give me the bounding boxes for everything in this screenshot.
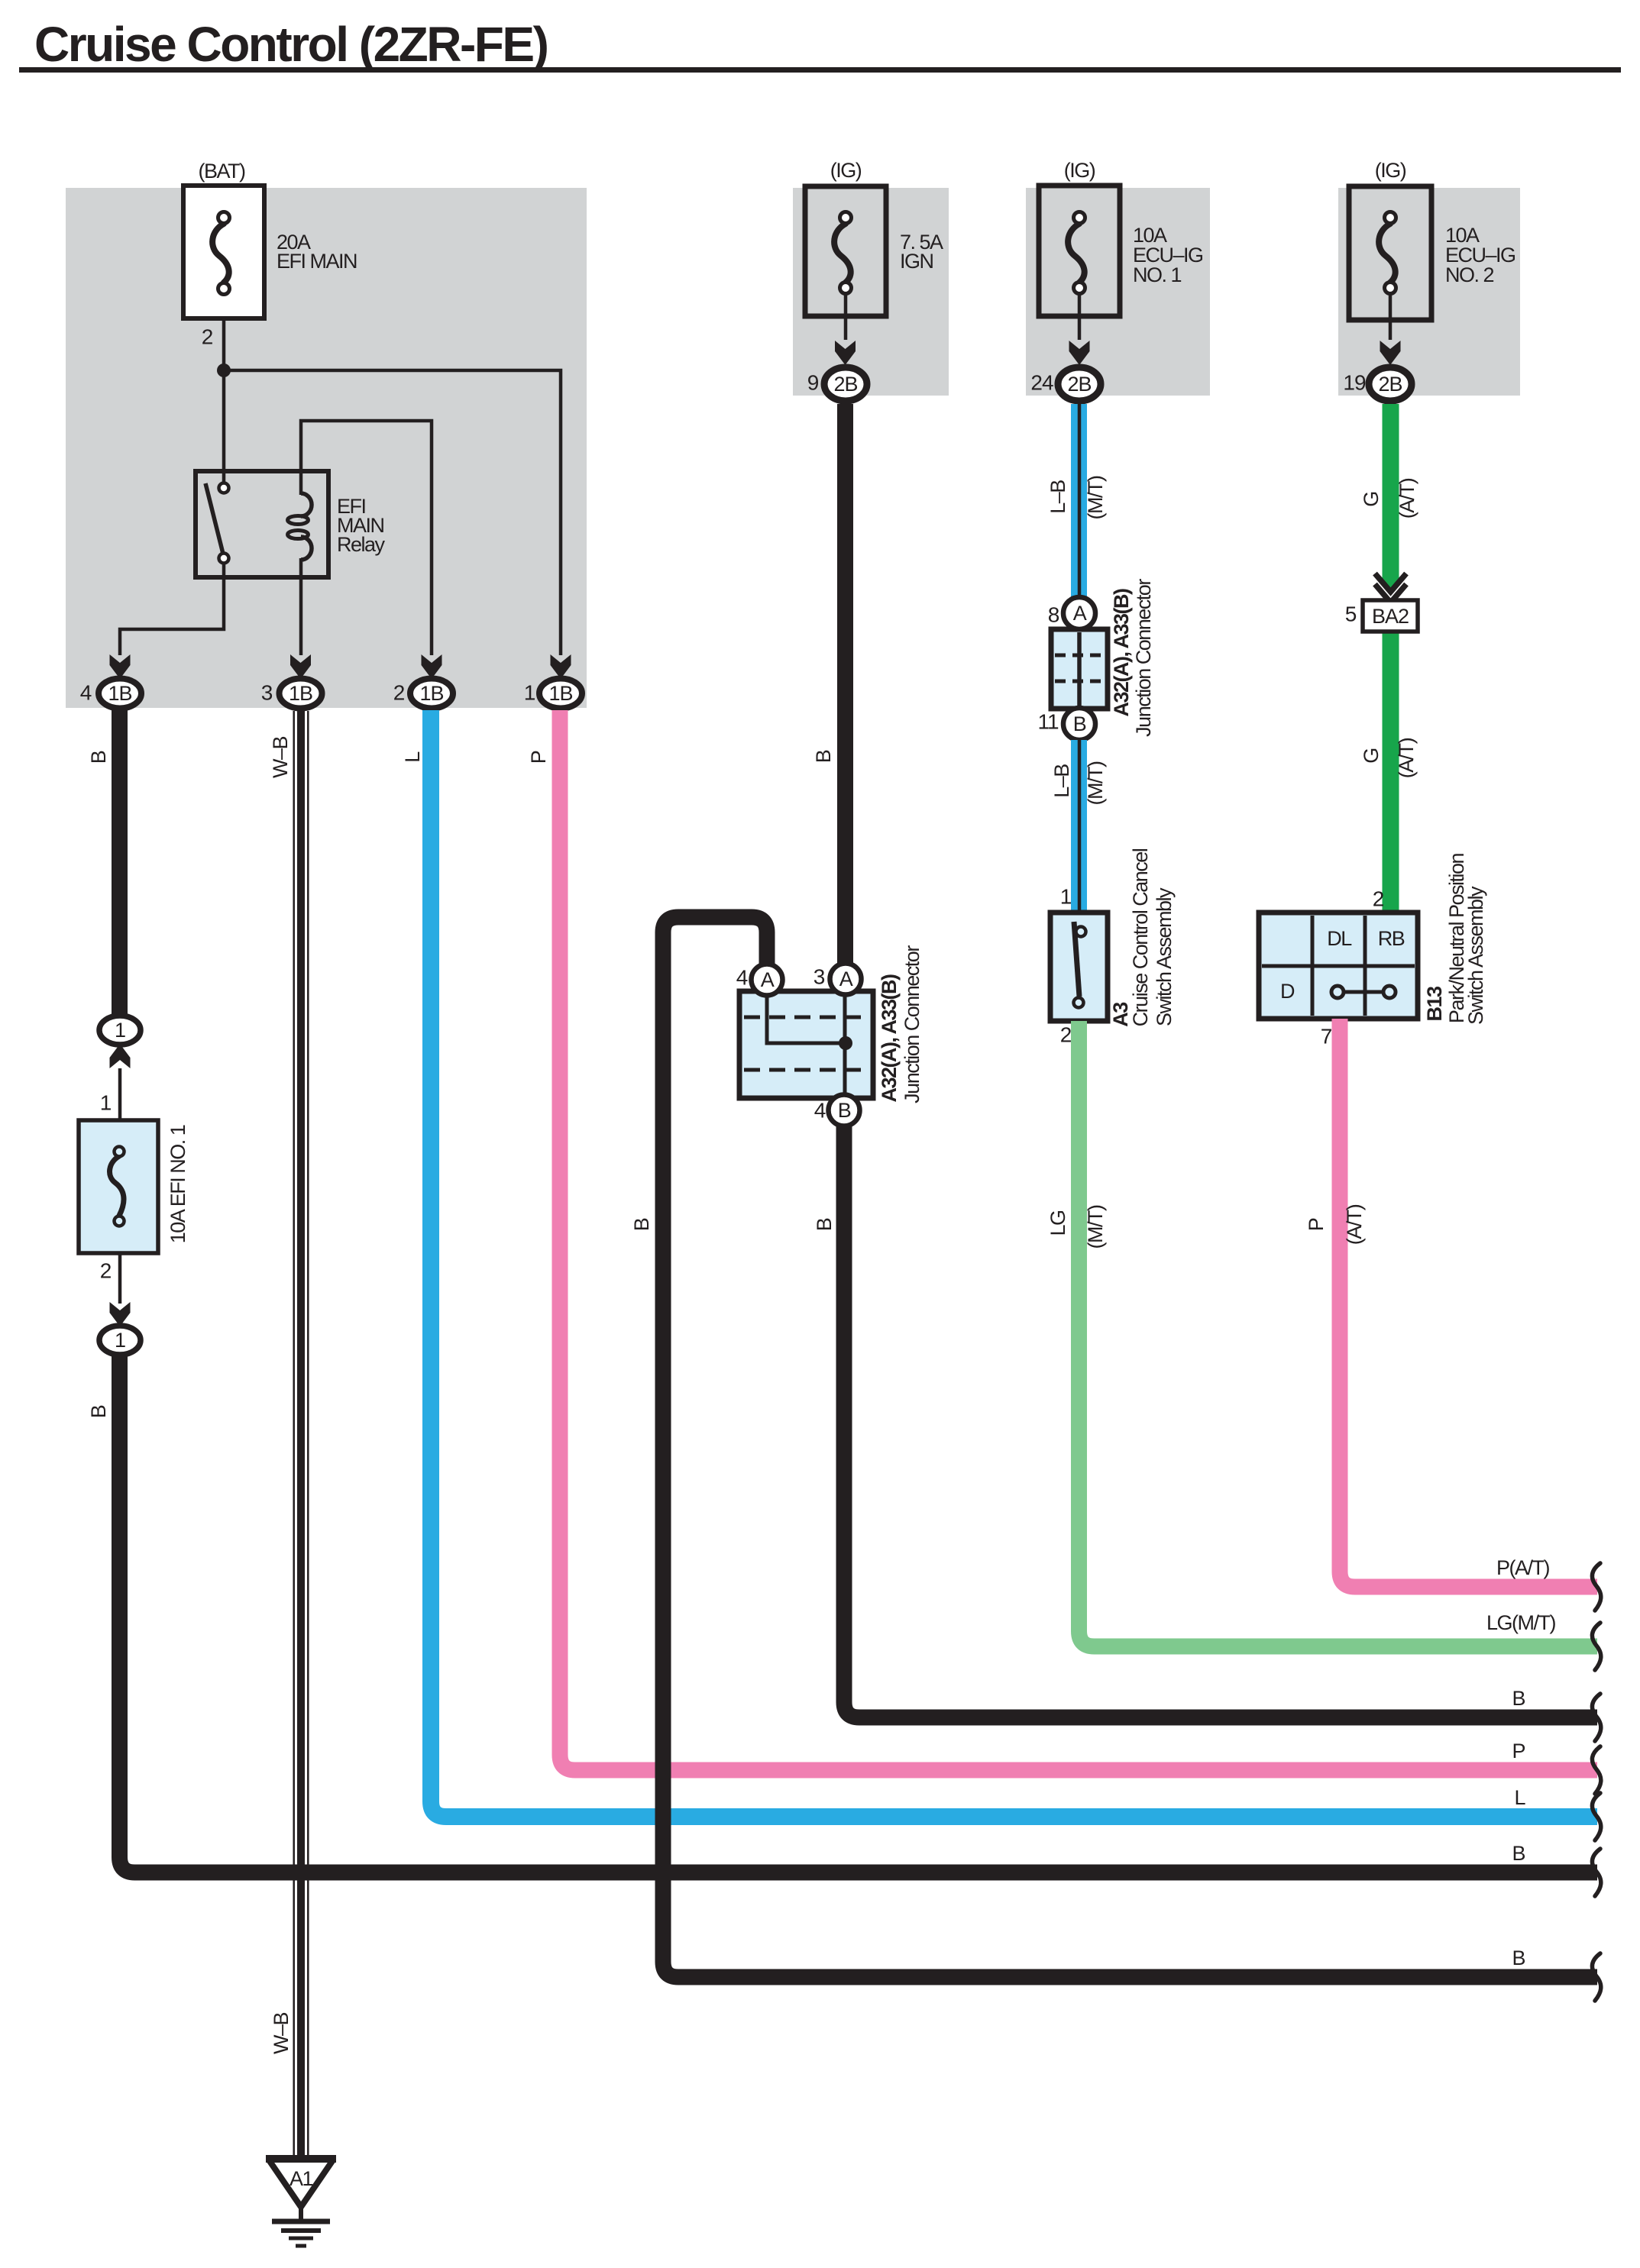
svg-text:1: 1 xyxy=(524,681,535,705)
svg-text:(M/T): (M/T) xyxy=(1084,761,1107,805)
svg-text:G: G xyxy=(1360,492,1383,507)
junction small pin B circle xyxy=(1063,708,1095,740)
svg-text:1: 1 xyxy=(115,1019,125,1042)
svg-text:NO. 1: NO. 1 xyxy=(1133,263,1182,286)
svg-text:(BAT): (BAT) xyxy=(199,160,245,183)
svg-text:A: A xyxy=(1073,602,1087,625)
connector 1 lower xyxy=(99,1326,141,1355)
svg-text:(IG): (IG) xyxy=(830,159,862,182)
svg-text:1B: 1B xyxy=(548,682,572,705)
svg-text:D: D xyxy=(1280,980,1295,1003)
pin 19 (2B) connector xyxy=(1369,367,1412,401)
wire arrow to fuse F5 xyxy=(118,1068,122,1120)
svg-text:L–B: L–B xyxy=(1050,764,1073,798)
svg-text:LG(M/T): LG(M/T) xyxy=(1486,1611,1555,1634)
svg-text:P: P xyxy=(1305,1218,1328,1231)
svg-text:NO. 2: NO. 2 xyxy=(1445,263,1494,286)
fuse F3 10A ECU-IG NO.1 xyxy=(1039,186,1120,316)
svg-text:4: 4 xyxy=(814,1099,826,1123)
svg-text:2B: 2B xyxy=(1378,373,1402,396)
pin 9 (2B) connector xyxy=(824,367,867,401)
svg-text:8: 8 xyxy=(1048,603,1059,627)
wire B elbow from junction A4 to bottom right edge xyxy=(663,917,1597,1977)
pin 19 (2B) arrow xyxy=(1380,341,1401,365)
svg-text:1: 1 xyxy=(1060,885,1072,909)
junction pin B (4) circle xyxy=(829,1095,860,1126)
svg-text:B: B xyxy=(812,750,835,763)
pin 2 (1B) connector xyxy=(410,679,453,709)
svg-text:BA2: BA2 xyxy=(1372,605,1409,628)
junction connector A32(A),A33(B) center box xyxy=(739,991,873,1098)
svg-text:(A/T): (A/T) xyxy=(1343,1204,1366,1245)
svg-text:DL: DL xyxy=(1327,927,1352,950)
wire F1 bottom to node xyxy=(222,318,226,370)
junction connector small box xyxy=(1051,629,1108,709)
svg-text:G: G xyxy=(1360,748,1383,764)
wire P from B13 to right edge xyxy=(1340,1019,1597,1587)
svg-text:1: 1 xyxy=(115,1329,125,1352)
squiggle end LG(M/T) xyxy=(1592,1623,1600,1670)
pin 3 (1B) arrow xyxy=(290,654,311,679)
pin 1 (1B) connector xyxy=(539,679,582,709)
wire F3 to pin 24 arrow xyxy=(1078,294,1082,340)
svg-text:Cruise Control Cancel: Cruise Control Cancel xyxy=(1129,848,1152,1026)
svg-text:2B: 2B xyxy=(1067,373,1091,396)
svg-text:Junction Connector: Junction Connector xyxy=(901,945,924,1103)
wire LG from A3 to right edge xyxy=(1079,1021,1598,1646)
pin 4 (1B) arrow xyxy=(110,654,131,679)
squiggle end B2 xyxy=(1592,1849,1600,1896)
arrow down into connector 1 lower xyxy=(110,1302,131,1326)
squiggle end P xyxy=(1592,1746,1600,1794)
wire B from pin 4 (upper thick) xyxy=(112,710,128,1016)
svg-text:2: 2 xyxy=(202,325,213,349)
svg-text:B: B xyxy=(838,1099,851,1122)
pin 3 (1B) connector xyxy=(280,679,322,709)
svg-text:B: B xyxy=(813,1218,836,1231)
svg-text:W–B: W–B xyxy=(269,737,292,779)
title underline xyxy=(19,67,1621,73)
wire L-B upper segment xyxy=(1071,404,1088,598)
svg-text:(IG): (IG) xyxy=(1375,159,1406,182)
svg-text:2: 2 xyxy=(1373,887,1384,911)
wire L from pin 2 to right edge xyxy=(431,710,1597,1817)
svg-text:EFI MAIN: EFI MAIN xyxy=(277,250,357,273)
squiggle end P(A/T) xyxy=(1592,1563,1600,1611)
squiggle end B3 xyxy=(1592,1953,1600,2001)
wire node to relay switch xyxy=(222,370,226,484)
connector 1 upper xyxy=(99,1016,141,1045)
squiggle end L xyxy=(1592,1793,1600,1840)
svg-text:(A/T): (A/T) xyxy=(1395,738,1418,778)
svg-text:4: 4 xyxy=(80,681,92,705)
wire node to pin 1(1B) xyxy=(224,370,561,655)
svg-text:24: 24 xyxy=(1030,371,1053,395)
connector BA2 xyxy=(1363,600,1418,632)
wire B lower to right edge xyxy=(120,1355,1598,1872)
power block shell (BAT) xyxy=(66,188,587,708)
svg-text:1B: 1B xyxy=(419,682,443,705)
svg-text:B: B xyxy=(1073,712,1086,735)
svg-text:P: P xyxy=(1512,1740,1525,1762)
svg-text:9: 9 xyxy=(807,371,819,395)
double chevron arrow BA2 xyxy=(1375,573,1406,603)
svg-text:Switch Assembly: Switch Assembly xyxy=(1464,886,1487,1025)
svg-text:3: 3 xyxy=(814,965,825,989)
wire F4 to pin 19 arrow xyxy=(1389,294,1393,340)
svg-text:W–B: W–B xyxy=(270,2013,293,2055)
relay EFI MAIN Relay xyxy=(196,471,328,577)
svg-text:B: B xyxy=(1512,1842,1525,1865)
junction pin A (4) circle xyxy=(752,964,783,996)
svg-text:A32(A), A33(B): A32(A), A33(B) xyxy=(1110,589,1133,717)
svg-text:B: B xyxy=(1512,1687,1525,1710)
junction pin A (3) circle xyxy=(830,964,862,995)
switch B13 park/neutral position xyxy=(1259,913,1418,1019)
wire coil top to pin 2(1B) xyxy=(301,421,432,655)
svg-text:(A/T): (A/T) xyxy=(1396,478,1418,519)
svg-text:2: 2 xyxy=(1060,1023,1072,1047)
svg-text:B13: B13 xyxy=(1423,986,1446,1022)
pin 24 (2B) connector xyxy=(1058,367,1101,401)
wire coil bottom to pin 3(1B) xyxy=(299,558,303,655)
pin 9 (2B) arrow xyxy=(835,341,856,365)
svg-text:5: 5 xyxy=(1345,603,1357,626)
svg-text:A32(A), A33(B): A32(A), A33(B) xyxy=(878,974,901,1103)
wire B from junction B4 to right edge xyxy=(844,1126,1597,1717)
svg-text:P: P xyxy=(527,751,550,764)
wire W-B from pin 3 to ground xyxy=(294,711,309,2155)
svg-text:Cruise Control (2ZR-FE): Cruise Control (2ZR-FE) xyxy=(34,17,548,72)
wire fuse F5 to arrow xyxy=(118,1253,122,1304)
ground A1 xyxy=(266,2159,336,2246)
svg-text:1B: 1B xyxy=(289,682,312,705)
svg-text:19: 19 xyxy=(1343,371,1366,395)
wire F2 to pin 9 arrow xyxy=(844,294,848,340)
fuse F5 10A EFI NO.1 xyxy=(79,1120,158,1253)
svg-text:A1: A1 xyxy=(290,2167,313,2190)
fuse F1 20A EFI MAIN xyxy=(183,186,264,318)
svg-text:11: 11 xyxy=(1037,710,1058,734)
svg-text:(IG): (IG) xyxy=(1064,159,1095,182)
svg-text:L–B: L–B xyxy=(1046,480,1069,514)
svg-text:7: 7 xyxy=(1321,1025,1332,1048)
wire G from pin 19 to B13 xyxy=(1383,404,1399,579)
svg-text:Switch Assembly: Switch Assembly xyxy=(1153,887,1176,1026)
pin 2 (1B) arrow xyxy=(422,654,442,679)
svg-text:1B: 1B xyxy=(108,682,131,705)
svg-text:RB: RB xyxy=(1378,927,1405,950)
pin 24 (2B) arrow xyxy=(1069,341,1090,365)
power block shell (IG) IGN xyxy=(793,188,949,396)
svg-text:Relay: Relay xyxy=(337,533,386,556)
svg-text:B: B xyxy=(87,1405,110,1418)
svg-text:A: A xyxy=(761,968,775,991)
svg-text:2B: 2B xyxy=(833,373,857,396)
squiggle end B1 xyxy=(1592,1694,1600,1741)
svg-text:(M/T): (M/T) xyxy=(1084,476,1107,519)
wire P from pin 1 to right edge xyxy=(560,710,1597,1770)
power block shell (IG) ECU-IG NO.1 xyxy=(1026,188,1210,396)
svg-text:4: 4 xyxy=(736,966,748,990)
svg-text:(M/T): (M/T) xyxy=(1084,1205,1107,1249)
svg-text:2: 2 xyxy=(100,1259,112,1283)
svg-text:P(A/T): P(A/T) xyxy=(1496,1556,1550,1579)
arrow up into connector 1 xyxy=(110,1044,131,1068)
pin 1 (1B) arrow xyxy=(551,654,571,679)
svg-text:A: A xyxy=(839,968,853,990)
fuse F4 10A ECU-IG NO.2 xyxy=(1349,186,1431,320)
junction small pin A circle xyxy=(1063,597,1095,629)
svg-text:2: 2 xyxy=(393,681,405,705)
svg-text:1: 1 xyxy=(100,1091,112,1115)
svg-text:3: 3 xyxy=(261,681,273,705)
fuse F2 7.5A IGN xyxy=(805,186,886,316)
svg-text:LG: LG xyxy=(1046,1210,1069,1236)
svg-text:10A EFI NO. 1: 10A EFI NO. 1 xyxy=(167,1125,189,1243)
svg-text:L: L xyxy=(401,751,424,763)
power block shell (IG) ECU-IG NO.2 xyxy=(1338,188,1520,396)
switch A3 cruise control cancel xyxy=(1050,913,1108,1021)
svg-text:Junction Connector: Junction Connector xyxy=(1132,579,1155,737)
svg-text:IGN: IGN xyxy=(900,250,933,273)
node junction dot xyxy=(217,363,231,377)
svg-text:B: B xyxy=(1512,1947,1525,1969)
pin 4 (1B) connector xyxy=(99,679,141,709)
svg-text:B: B xyxy=(630,1218,653,1231)
svg-text:L: L xyxy=(1514,1786,1525,1809)
wire L-B lower segment xyxy=(1071,740,1088,913)
wire B from pin 9 to junction connector xyxy=(837,404,853,964)
svg-text:B: B xyxy=(87,751,110,764)
wire switch bottom to pin 4(1B) xyxy=(120,563,224,655)
